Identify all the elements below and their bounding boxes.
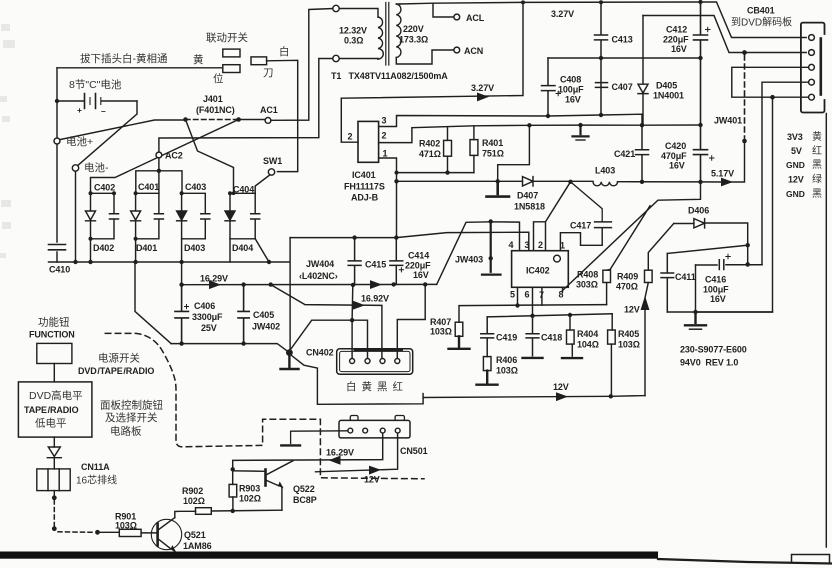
svg-text:J401: J401 xyxy=(203,94,223,104)
wire: 12V line from CN501 pin4 xyxy=(316,434,398,472)
svg-text:3: 3 xyxy=(382,116,387,126)
jack J401 dashed (F401NC) xyxy=(186,119,239,121)
svg-text:DVD /TAPE /RADIO: DVD /TAPE /RADIO xyxy=(78,366,154,376)
svg-text:R404: R404 xyxy=(577,329,598,339)
resistor R402 xyxy=(447,128,449,173)
svg-text:D403: D403 xyxy=(184,243,205,253)
svg-text:IC402: IC402 xyxy=(526,266,550,276)
jumper JW403 to ground xyxy=(482,222,501,275)
svg-text:5.17V: 5.17V xyxy=(711,169,734,179)
svg-text:471Ω: 471Ω xyxy=(419,149,441,159)
svg-text:C417: C417 xyxy=(570,221,591,231)
transistor Q521 xyxy=(151,518,181,558)
svg-text:D407: D407 xyxy=(517,191,538,201)
svg-text:1: 1 xyxy=(383,149,388,159)
svg-text:7: 7 xyxy=(539,290,544,300)
ground below y312 xyxy=(685,312,706,325)
resistor R409 xyxy=(645,270,653,282)
wire: battery top rail from left corner to switch xyxy=(57,67,223,69)
wire: ground line y=312 xyxy=(667,311,772,313)
svg-text:JW402: JW402 xyxy=(252,322,280,332)
svg-text:GND: GND xyxy=(786,160,805,170)
svg-text:JW403: JW403 xyxy=(455,255,483,265)
node SW1 circle xyxy=(268,169,274,175)
IC402 pin7 stub xyxy=(541,287,543,305)
wire to DVD box xyxy=(53,364,55,382)
svg-text:R409: R409 xyxy=(617,272,638,282)
svg-text:3: 3 xyxy=(525,240,530,250)
svg-text:R903: R903 xyxy=(239,484,260,494)
svg-text:220V: 220V xyxy=(403,24,424,34)
IC401 box xyxy=(358,121,379,162)
wire: 16.92V rail tap to CN402 pin4 xyxy=(397,284,425,358)
jumper JW401 dashed xyxy=(731,142,745,183)
svg-text:到DVD解码板: 到DVD解码板 xyxy=(731,16,792,29)
ground at junction xyxy=(281,353,299,369)
wire: R409 down to 12V riser with up arrow xyxy=(645,283,648,396)
svg-text:16V: 16V xyxy=(413,270,429,280)
svg-text:D402: D402 xyxy=(93,243,114,253)
node 电池+ circle xyxy=(54,138,60,144)
svg-text:D401: D401 xyxy=(136,243,157,253)
resistor R406 xyxy=(483,357,491,371)
svg-text:功能钮: 功能钮 xyxy=(38,316,70,329)
svg-text:AC2: AC2 xyxy=(165,151,183,161)
wire: J401 left to C404 pair top xyxy=(186,120,234,194)
rectifier pair C401/D401 xyxy=(131,191,164,241)
svg-text:R902: R902 xyxy=(182,486,203,496)
svg-text:C401: C401 xyxy=(138,182,159,192)
svg-text:D404: D404 xyxy=(232,243,253,253)
svg-text:DVD高电平: DVD高电平 xyxy=(29,389,83,402)
svg-text:R405: R405 xyxy=(618,329,639,339)
svg-text:4: 4 xyxy=(509,240,514,250)
capacitor C406 3300uF xyxy=(175,285,188,344)
svg-text:C410: C410 xyxy=(49,265,70,275)
svg-text:C412: C412 xyxy=(666,25,687,35)
wire: R402/R401 bottoms to ADJ line xyxy=(397,172,474,174)
capacitor C415 xyxy=(348,238,361,285)
wire: ground line y=343.6 xyxy=(171,344,289,353)
svg-text:C406: C406 xyxy=(194,301,215,311)
rectifier pair C404/D404 xyxy=(225,191,260,239)
wire: right edge vertical xyxy=(825,114,827,548)
svg-text:JW404: JW404 xyxy=(306,259,334,269)
capacitor C420 xyxy=(694,125,708,182)
svg-text:R406: R406 xyxy=(496,355,517,365)
wire: CB401 pin3 to pin5 link xyxy=(732,67,809,97)
resistor R401 xyxy=(473,126,475,173)
capacitor C405 / JW402 xyxy=(238,285,249,344)
svg-text:3V3: 3V3 xyxy=(787,132,803,142)
dashed panel boundary xyxy=(105,333,424,478)
resistor R405 xyxy=(610,314,613,397)
IC402 pin5 line to R407 xyxy=(459,287,607,322)
wire: 16.29V rail xyxy=(182,283,437,285)
FUNCTION button box xyxy=(37,343,72,363)
svg-text:8: 8 xyxy=(559,290,564,300)
svg-text:470μF: 470μF xyxy=(661,151,687,161)
svg-text:D405: D405 xyxy=(656,81,677,91)
inductor L403 xyxy=(593,182,618,186)
svg-text:8节"C"电池: 8节"C"电池 xyxy=(69,78,122,91)
wire: pair4 cap corner diagonal to rail xyxy=(255,239,269,262)
svg-text:6: 6 xyxy=(525,290,530,300)
svg-text:16V: 16V xyxy=(669,161,685,171)
wire: CB401 pin4 xyxy=(762,82,808,264)
svg-text:16V: 16V xyxy=(565,95,581,105)
node ACL xyxy=(454,14,460,20)
svg-text:刀: 刀 xyxy=(263,67,274,79)
svg-text:C414: C414 xyxy=(408,251,429,261)
svg-text:黑: 黑 xyxy=(812,159,822,171)
wire: 16.29V tap to CN402 pin3 (arrowed) xyxy=(271,285,382,359)
node AC1 circle xyxy=(265,118,271,124)
svg-text:16.29V: 16.29V xyxy=(326,448,354,458)
wire: C416 left corner down to ground xyxy=(695,265,697,312)
interlock switch contact 3 (knife) xyxy=(251,57,267,65)
transformer T1 xyxy=(333,3,401,66)
svg-text:C416: C416 xyxy=(705,275,726,285)
svg-text:104Ω: 104Ω xyxy=(577,340,599,350)
svg-text:+: + xyxy=(77,105,82,115)
svg-text:C411: C411 xyxy=(675,272,696,282)
wire: AC2 line to transformer bottom xyxy=(159,59,333,153)
svg-text:AC1: AC1 xyxy=(260,105,278,115)
node battery junction xyxy=(55,99,59,103)
wire: junction to CN402 pin1/pin2 branch xyxy=(289,320,367,358)
node main ground junction xyxy=(286,349,293,356)
svg-text:(F401NC): (F401NC) xyxy=(196,105,235,115)
capacitor C412 column xyxy=(694,2,708,125)
capacitor C410 xyxy=(49,245,66,250)
svg-text:白黄黑红: 白黄黑红 xyxy=(346,380,408,393)
wire: pair stubs down to minus rail xyxy=(91,239,231,262)
svg-text:94V0 REV 1.0: 94V0 REV 1.0 xyxy=(680,358,738,368)
svg-text:黄: 黄 xyxy=(193,53,204,66)
wire: secondary bottom to ACN xyxy=(396,50,454,64)
svg-text:C405: C405 xyxy=(253,310,274,320)
IC402 pin8 stub xyxy=(562,287,564,291)
wire: D406 left to R409 xyxy=(648,224,673,271)
capacitor C416 on horizontal wire xyxy=(696,260,763,270)
svg-text:电池+: 电池+ xyxy=(66,135,93,148)
svg-text:ACL: ACL xyxy=(466,13,485,23)
svg-text:C404: C404 xyxy=(233,185,254,195)
svg-text:位: 位 xyxy=(213,72,224,85)
node AC2 circle xyxy=(156,152,162,158)
svg-text:230-S9077-E600: 230-S9077-E600 xyxy=(680,345,747,355)
wire: secondary top to ACL xyxy=(433,3,454,17)
svg-text:电源开关: 电源开关 xyxy=(98,352,140,365)
wire: J401 right to C402 pair top xyxy=(91,120,239,194)
svg-text:C415: C415 xyxy=(365,260,386,270)
resistor R408 xyxy=(603,270,611,282)
svg-text:绿: 绿 xyxy=(812,173,822,186)
svg-text:白: 白 xyxy=(279,45,290,58)
transistor Q522 xyxy=(233,461,293,511)
svg-text:102Ω: 102Ω xyxy=(239,494,261,504)
wire: IC401 pin2 left xyxy=(341,98,358,142)
wire: SW1 to C404 pair right xyxy=(255,175,270,194)
svg-text:T1 TX48TV11A082/1500mA: T1 TX48TV11A082/1500mA xyxy=(331,71,448,81)
wire: R408 riser joining feedback diag xyxy=(606,206,650,270)
svg-text:12V: 12V xyxy=(364,475,380,485)
svg-text:1N4001: 1N4001 xyxy=(653,91,684,101)
svg-text:16V: 16V xyxy=(710,294,726,304)
wire: IC401 pin2 right to R402/R401 top rail xyxy=(379,125,701,143)
wire: 电池+ to J401 left xyxy=(60,120,186,140)
svg-text:2: 2 xyxy=(538,240,543,250)
svg-text:1AM86: 1AM86 xyxy=(183,541,212,551)
wire: minus rail y=262 xyxy=(49,261,290,263)
connector CN402 xyxy=(337,349,413,374)
svg-text:2: 2 xyxy=(382,131,387,141)
wire: IC401 pin3 to C408/C413 line xyxy=(379,114,642,126)
capacitor C414 xyxy=(390,238,403,285)
svg-text:12V: 12V xyxy=(624,305,640,315)
svg-text:ADJ-B: ADJ-B xyxy=(351,193,379,203)
svg-text:C407: C407 xyxy=(612,82,633,92)
svg-text:JW401: JW401 xyxy=(714,116,742,126)
svg-text:C421: C421 xyxy=(614,149,635,159)
battery rail vertical C410 column xyxy=(56,68,58,262)
svg-text:12.32V: 12.32V xyxy=(339,26,367,36)
battery BT (8 C cells) xyxy=(57,94,137,117)
svg-text:R402: R402 xyxy=(419,139,440,149)
svg-text:电路板: 电路板 xyxy=(110,425,142,438)
wire: IC402 pin1 to C417 xyxy=(560,228,602,251)
node ACN xyxy=(454,47,460,53)
svg-text:103Ω: 103Ω xyxy=(430,327,452,337)
wire: C411 top line to D406 column xyxy=(667,245,747,253)
svg-text:12V: 12V xyxy=(788,175,804,185)
svg-text:3.27V: 3.27V xyxy=(471,83,494,93)
svg-text:103Ω: 103Ω xyxy=(115,521,137,531)
ground on mid rail xyxy=(573,125,589,136)
bottom border bar xyxy=(0,552,658,559)
svg-text:16芯排线: 16芯排线 xyxy=(76,474,117,487)
capacitor C411 xyxy=(661,254,674,313)
wire: rail to 16.29V rail via x=181.6 and x=135 xyxy=(135,262,182,344)
svg-text:黄: 黄 xyxy=(812,130,822,143)
capacitor C418 xyxy=(526,316,539,356)
capacitor C407 xyxy=(596,83,608,88)
rectifier pair C403/D403 xyxy=(177,191,210,239)
diode D405 column xyxy=(642,16,644,126)
svg-text:SW1: SW1 xyxy=(263,156,282,166)
DVD level box xyxy=(18,382,92,437)
svg-text:102Ω: 102Ω xyxy=(183,496,205,506)
svg-text:CN402: CN402 xyxy=(306,348,334,358)
svg-text:303Ω: 303Ω xyxy=(576,280,598,290)
svg-text:D406: D406 xyxy=(688,206,709,216)
svg-text:–: – xyxy=(101,106,106,116)
wire: junction to 12V rail xyxy=(289,354,423,405)
svg-text:红: 红 xyxy=(812,144,822,157)
svg-text:R407: R407 xyxy=(430,317,451,327)
arrow 5.17V xyxy=(722,178,732,185)
dashed wire down to R901 xyxy=(53,500,55,526)
svg-text:C402: C402 xyxy=(94,183,115,193)
svg-text:103Ω: 103Ω xyxy=(496,366,518,376)
svg-text:Q521: Q521 xyxy=(184,530,206,540)
svg-text:C420: C420 xyxy=(665,141,686,151)
svg-text:BC8P: BC8P xyxy=(293,495,317,505)
wire: top 3.3V rail to CB401 pin1 xyxy=(400,2,806,38)
rectifier pair C402/D402 xyxy=(86,191,119,241)
svg-text:0.3Ω: 0.3Ω xyxy=(344,36,363,46)
capacitor C421 xyxy=(636,125,649,182)
wire: JW404 line riser down to junction xyxy=(289,238,291,351)
svg-text:GND: GND xyxy=(786,189,805,199)
svg-text:FH11117S: FH11117S xyxy=(344,182,385,192)
interlock switch contact 1 xyxy=(223,49,240,57)
wire: C412 top link xyxy=(643,16,806,53)
wire: CN501 pin1 to ground xyxy=(281,431,348,446)
interlock switch contact 2 xyxy=(223,65,240,73)
svg-text:CB401: CB401 xyxy=(747,6,775,16)
resistor R404 xyxy=(570,315,572,356)
IC402 pin6 riser to C418/R404 line xyxy=(487,287,612,317)
svg-text:CN501: CN501 xyxy=(400,446,428,456)
diode D406 line xyxy=(674,223,748,264)
svg-text:Q522: Q522 xyxy=(293,484,315,494)
wire: 3.27V regulator line with arrow xyxy=(341,2,523,98)
svg-text:25V: 25V xyxy=(201,323,217,333)
connector CN501 xyxy=(339,416,410,438)
svg-text:100μF: 100μF xyxy=(558,85,584,95)
svg-text:173.3Ω: 173.3Ω xyxy=(399,35,428,45)
wire: battery minus to 电池- terminal xyxy=(78,101,137,166)
svg-text:黑: 黑 xyxy=(812,188,822,200)
ground below D407 line xyxy=(487,181,510,196)
resistor R407 xyxy=(455,322,463,336)
svg-text:220μF: 220μF xyxy=(663,35,689,45)
wire: 5V feedback to IC402 pin8 xyxy=(563,182,701,291)
svg-text:12V: 12V xyxy=(553,382,569,392)
svg-text:16V: 16V xyxy=(671,44,687,54)
branch from gnd rail down to 5V line xyxy=(498,125,530,181)
svg-text:联动开关: 联动开关 xyxy=(206,31,248,44)
svg-text:16.29V: 16.29V xyxy=(200,274,228,284)
svg-text:低电平: 低电平 xyxy=(35,417,67,430)
svg-text:5: 5 xyxy=(510,290,515,300)
svg-text:R408: R408 xyxy=(577,270,598,280)
resistor R901 xyxy=(119,529,141,536)
svg-text:R401: R401 xyxy=(482,138,503,148)
scan noise left edge xyxy=(0,24,15,258)
svg-text:CN11A: CN11A xyxy=(81,462,110,472)
svg-text:FUNCTION: FUNCTION xyxy=(29,330,75,340)
wire: switch to SW1 riser xyxy=(267,60,298,171)
svg-text:470Ω: 470Ω xyxy=(616,282,638,292)
svg-text:3300μF: 3300μF xyxy=(192,312,223,322)
svg-text:1N5818: 1N5818 xyxy=(514,202,545,212)
wire: AC2 down to rectifier pairs xyxy=(136,158,182,193)
svg-text:TAPE /RADIO: TAPE /RADIO xyxy=(24,405,79,415)
svg-text:C408: C408 xyxy=(560,75,581,85)
capacitor C413 column xyxy=(595,2,608,115)
svg-text:C403: C403 xyxy=(185,182,206,192)
svg-text:3.27V: 3.27V xyxy=(551,9,574,19)
connector CN11A xyxy=(37,469,70,491)
svg-text:16.92V: 16.92V xyxy=(361,294,389,304)
电池- circle xyxy=(72,165,78,171)
svg-text:拔下插头白-黄相通: 拔下插头白-黄相通 xyxy=(80,52,168,65)
wire: IC401 pin1 down xyxy=(379,158,397,238)
svg-text:ACN: ACN xyxy=(464,46,483,56)
svg-text:电池-: 电池- xyxy=(84,161,109,174)
svg-text:220μF: 220μF xyxy=(405,261,431,271)
diode D407 xyxy=(523,177,534,186)
wire: 16.92V rail diagonal up to IC402 pin4 line xyxy=(437,222,520,285)
connector CB401 xyxy=(801,23,825,113)
resistor R903 xyxy=(232,469,234,511)
wire: J401 right to AC1 to transformer top xyxy=(241,9,333,121)
wire: 电池- down to rail xyxy=(75,171,77,262)
wire: IC402 pins 2-3 risers to 5V apex xyxy=(534,182,571,251)
svg-text:‹L402NC›: ‹L402NC› xyxy=(299,271,338,281)
wire: R408 bottom to pin5 line xyxy=(606,283,608,305)
svg-text:IC401: IC401 xyxy=(352,170,376,180)
wire and diode below DVD box xyxy=(53,437,55,447)
svg-text:5V: 5V xyxy=(791,146,802,156)
wire: 5V line D407 to L403 to arrow xyxy=(397,180,723,183)
svg-text:1: 1 xyxy=(560,241,565,251)
wire: y=58 link line xyxy=(548,57,701,59)
svg-text:L403: L403 xyxy=(595,166,615,176)
wire: Q521 collector to R902 line xyxy=(175,511,196,517)
svg-text:103Ω: 103Ω xyxy=(618,340,640,350)
IC402 box xyxy=(512,251,569,288)
capacitor C417 xyxy=(595,222,612,228)
svg-text:C418: C418 xyxy=(541,333,562,343)
wire: CB401 pin5 riser to ground line xyxy=(696,97,773,312)
svg-text:C413: C413 xyxy=(612,35,633,45)
wire: JW404 line (L402NC) xyxy=(290,232,529,251)
capacitor C408 column xyxy=(542,58,556,116)
capacitor C419 xyxy=(481,317,494,357)
svg-text:C419: C419 xyxy=(496,333,517,343)
wire: 16.29V line from CN501 pin3 xyxy=(233,434,383,469)
svg-text:及选择开关: 及选择开关 xyxy=(105,411,158,424)
svg-text:面板控制旋钮: 面板控制旋钮 xyxy=(100,399,163,412)
wire: C415 node down to CN402 pin1 xyxy=(351,285,354,359)
resistor R902 xyxy=(196,508,212,515)
svg-text:100μF: 100μF xyxy=(703,285,729,295)
svg-text:751Ω: 751Ω xyxy=(482,149,504,159)
wire: 12V rail xyxy=(423,396,645,398)
svg-text:2: 2 xyxy=(348,132,353,142)
